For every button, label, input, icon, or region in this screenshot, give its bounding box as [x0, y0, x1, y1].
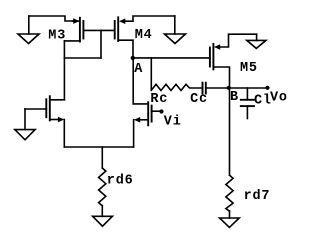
- resistor rd6: [99, 168, 106, 206]
- wire node B to rd7: [229, 88, 231, 175]
- wire node A down to M2 drain: [133, 58, 148, 104]
- wire VDD to M3 source: [29, 16, 73, 21]
- ground G4 (M1 gate): [15, 109, 35, 140]
- wire Cc to node B: [206, 87, 229, 89]
- wire rd7 to ground: [229, 211, 231, 218]
- wire tail to rd6: [101, 147, 103, 168]
- transistor M5: [210, 34, 257, 88]
- transistor M1: [25, 96, 64, 122]
- node Vi: [159, 109, 163, 113]
- svg-text:Cc: Cc: [190, 92, 208, 107]
- svg-text:rd6: rd6: [107, 173, 134, 188]
- wire M2 source to tail: [133, 120, 135, 147]
- resistor rd7: [226, 175, 233, 211]
- wire node B to Vo: [229, 87, 268, 89]
- resistor Rc: [151, 84, 202, 90]
- node Vo: [265, 86, 269, 90]
- transistor M2: [134, 102, 160, 125]
- svg-text:Vo: Vo: [270, 90, 288, 105]
- svg-text:B: B: [230, 90, 239, 105]
- svg-text:M3: M3: [48, 28, 66, 43]
- svg-text:M4: M4: [135, 28, 153, 43]
- wire rd6 to ground: [101, 206, 103, 217]
- wire node A to M5 gate: [133, 57, 210, 59]
- ground G3 (M5): [247, 34, 266, 48]
- svg-text:Rc: Rc: [150, 92, 168, 107]
- wire M1 source to tail: [63, 120, 65, 148]
- wire diode-connect (gate drop to drain): [100, 30, 102, 58]
- ground G1 top-left: [18, 16, 39, 44]
- svg-text:M5: M5: [240, 61, 258, 76]
- capacitor Cl: [241, 88, 254, 119]
- svg-text:rd7: rd7: [244, 189, 271, 204]
- node B: [227, 86, 231, 90]
- wire tail: [64, 146, 133, 148]
- wire node A to Rc: [150, 58, 152, 90]
- ground G2 (M4): [165, 16, 186, 44]
- transistor M3: [64, 18, 83, 42]
- svg-text:A: A: [134, 62, 143, 77]
- ground G5 (rd6): [93, 216, 113, 226]
- svg-text:Vi: Vi: [164, 115, 182, 130]
- wire gate M3-M4: [83, 29, 114, 31]
- wire M3 drain down to M1 drain: [63, 41, 65, 100]
- transistor M4: [115, 16, 175, 56]
- ground G6 (rd7): [220, 218, 240, 227]
- node A: [131, 56, 135, 60]
- capacitor Cc: [203, 83, 206, 94]
